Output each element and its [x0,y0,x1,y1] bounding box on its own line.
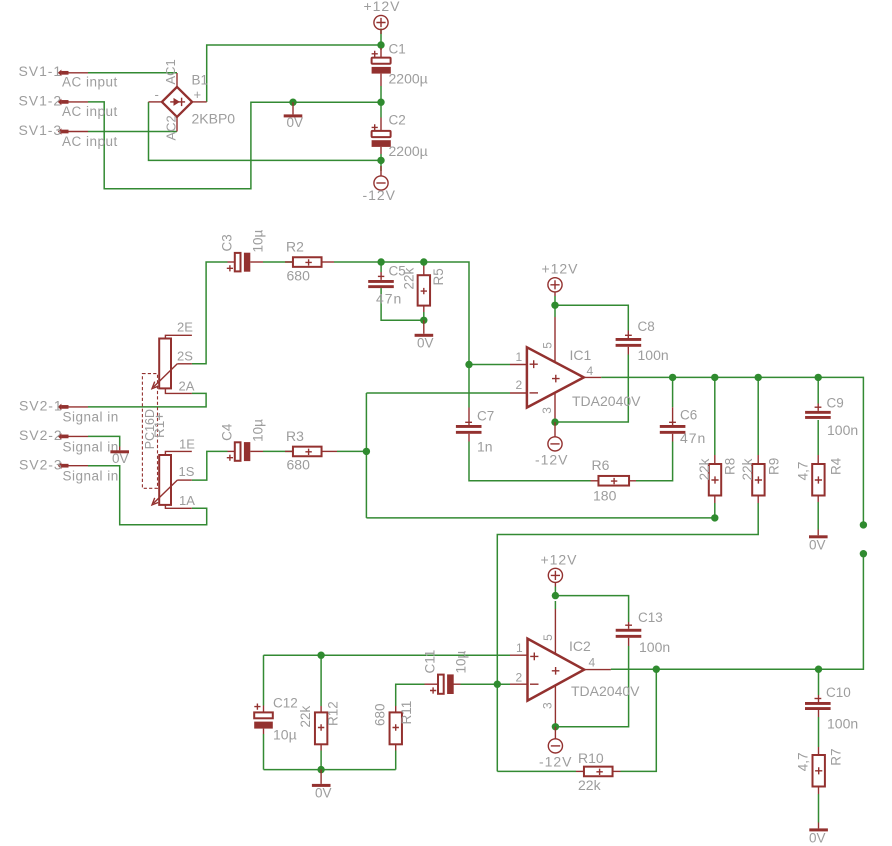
svg-text:1A: 1A [179,493,195,508]
wire feedback bus to R8 bottom [366,517,714,519]
wire R11 top to C11 [396,684,425,706]
supply symbol +12V IC1 [548,278,562,296]
wire net -12V: bridge minus down and right to C2 bottom [149,102,382,160]
svg-text:-12V: -12V [363,187,396,203]
potentiometer R1 section 1 (lower) [152,451,192,508]
svg-text:0V: 0V [809,538,826,553]
svg-text:R1: R1 [152,421,167,438]
junction node C10/rail [815,666,822,673]
svg-text:C1: C1 [389,42,406,57]
wire net 0V: SV1-2 via bottom loop to C1/C2 midpoint [88,102,381,189]
wire R4 bottom to ground [817,502,819,530]
svg-text:-: - [155,87,159,102]
junction node R12 bottom [317,766,324,773]
junction node IC2 pin3 [552,723,559,730]
junction node R12 top / pin1 [317,652,324,659]
svg-text:0V: 0V [287,115,304,130]
supply symbol -12V IC1 [548,422,562,451]
wire R11 bottom [395,751,397,770]
svg-text:+: + [194,87,202,102]
wire net pin1 IC1 [469,364,510,366]
wire net AC1: SV1-1 to bridge [88,72,177,74]
svg-text:Signal in: Signal in [63,469,119,484]
wire C5 branch [380,262,382,272]
svg-text:22k: 22k [740,458,755,480]
svg-text:22k: 22k [697,458,712,480]
svg-text:+12V: +12V [542,261,579,277]
wire C12 branch [263,655,265,705]
wire C4 to R3 [263,450,293,452]
capacitor C4 [227,442,263,461]
wire net SV2-3 down to 1A loop [88,466,207,525]
svg-text:3: 3 [541,702,555,709]
connector pin SV2-2 [58,433,88,440]
wire IC1 +12V to pin5 and C8 [554,296,556,317]
svg-text:2: 2 [516,378,523,392]
svg-text:2KBP0: 2KBP0 [192,111,236,127]
svg-text:AC2: AC2 [164,115,179,140]
svg-text:TDA2040V: TDA2040V [572,393,641,409]
svg-text:47n: 47n [680,430,706,446]
svg-text:C11: C11 [423,650,438,674]
wire R9 top [757,377,759,455]
supply symbol +12V IC2 [548,568,562,595]
svg-text:C12: C12 [273,696,298,711]
connector pin SV2-1 [58,404,88,411]
junction node R5 bottom [420,317,427,324]
svg-text:C13: C13 [638,610,663,625]
capacitor C6 [660,407,686,441]
svg-text:C4: C4 [220,423,235,441]
svg-text:TDA2040V: TDA2040V [571,683,640,699]
resistor R11 [390,706,402,751]
svg-text:2200µ: 2200µ [389,71,428,87]
svg-text:R9: R9 [766,458,781,475]
svg-text:R5: R5 [431,268,446,285]
capacitor C10 [805,695,831,717]
wire C10 column [818,669,820,695]
svg-text:C2: C2 [389,113,406,128]
svg-text:R11: R11 [399,701,414,725]
ground symbol 0V (R4) [809,530,828,539]
wire C8 bottom to pin3 [555,355,628,423]
wire C13 bottom to pin3 [555,646,628,727]
svg-text:2E: 2E [177,320,193,335]
wire net pot1 wiper to C4 [192,451,228,480]
svg-text:B1: B1 [192,73,209,88]
capacitor C3 [227,253,263,272]
wire R10 feedback [497,770,576,772]
svg-text:AC input: AC input [62,75,118,90]
svg-text:SV1-2: SV1-2 [19,93,63,109]
svg-text:C8: C8 [638,319,655,334]
wire R8 top [714,377,716,455]
capacitor C8 [616,331,642,355]
wire net pot2 wiper to C3 [192,262,228,364]
wire R5 branch [423,262,425,265]
connector pin SV1-3 [58,128,88,135]
svg-text:680: 680 [287,268,311,284]
resistor R7 [813,747,825,794]
resistor R2 [285,257,334,267]
svg-text:3: 3 [540,407,554,414]
svg-text:R3: R3 [286,428,304,444]
wire pin2 column down to feedback bus [365,393,367,518]
svg-text:C9: C9 [827,396,844,411]
svg-text:C6: C6 [680,408,697,423]
wire net AC2: SV1-3 to bridge [88,131,177,133]
resistor R12 [315,706,327,751]
wire net SV2-1 to pot2 bottom 2A [88,393,206,407]
svg-text:R12: R12 [326,701,341,726]
svg-text:22k: 22k [298,705,313,727]
wire C6 top to output rail [672,377,674,407]
junction node C1/C2 midpoint [377,99,384,106]
wire net pin1 IC2 [264,654,511,656]
resistor R4 [812,455,824,502]
svg-text:R2: R2 [286,239,304,255]
svg-text:C3: C3 [220,234,235,251]
capacitor C12 [254,704,273,735]
svg-text:AC input: AC input [62,134,118,149]
wire net OUT2: right rail down to IC2 output [611,554,864,670]
svg-text:0V: 0V [315,786,332,801]
svg-text:2200µ: 2200µ [389,143,428,159]
svg-text:100n: 100n [639,639,670,655]
svg-text:1S: 1S [179,464,195,479]
connector pin SV1-1 [58,70,88,77]
junction node R10/output [653,666,660,673]
connector pin SV1-2 [58,99,88,106]
svg-text:4,7: 4,7 [796,752,811,771]
svg-text:C7: C7 [477,409,494,424]
svg-text:SV1-3: SV1-3 [19,122,63,138]
supply symbol +12V top [374,15,388,34]
svg-text:1n: 1n [477,439,493,455]
ground symbol 0V (R7) [809,823,828,832]
svg-text:0V: 0V [417,336,434,351]
wire C9 bottom to R4 [817,420,819,455]
ground symbol 0V (bridge midpoint) [284,102,303,117]
svg-text:0V: 0V [112,451,129,466]
supply symbol -12V top section [374,166,388,190]
capacitor C11 [425,674,461,694]
resistor R5 [418,265,430,312]
ground symbol 0V (R12) [312,770,331,787]
svg-text:2A: 2A [179,379,195,394]
capacitor C5 [368,272,394,288]
capacitor C2 [372,118,391,155]
svg-text:10µ: 10µ [251,419,266,442]
svg-text:100n: 100n [638,347,669,363]
svg-text:SV2-3: SV2-3 [19,457,63,473]
svg-text:2S: 2S [177,349,193,364]
svg-text:SV2-2: SV2-2 [19,427,63,443]
svg-text:10µ: 10µ [454,650,469,673]
svg-text:5: 5 [541,342,555,349]
connector pin SV2-3 [58,462,88,469]
ground symbol 0V (R5/C5) [415,320,434,337]
svg-text:180: 180 [593,488,617,504]
svg-text:4,7: 4,7 [795,462,810,481]
op-amp IC1 [510,317,601,422]
wire C7 column [468,365,470,408]
svg-text:10µ: 10µ [251,229,266,252]
svg-text:R7: R7 [828,749,843,766]
junction node IC2 pin5 [552,592,559,599]
svg-text:4: 4 [587,364,594,378]
junction node IC1 pin3 [551,418,558,425]
junction node C5 top [377,258,384,265]
capacitor C1 [372,48,391,86]
svg-text:Signal in: Signal in [63,440,119,455]
svg-text:1E: 1E [179,437,195,452]
wire net OUT1: output rail [601,377,863,525]
wire R12 top [320,655,322,706]
svg-text:5: 5 [541,634,555,641]
svg-text:R8: R8 [722,458,737,475]
junction node R9/rail [755,374,762,381]
wire net pin2 IC1 [366,392,510,394]
junction node C6/rail [669,374,676,381]
svg-text:22k: 22k [578,777,602,793]
svg-text:-12V: -12V [539,754,572,770]
wire ground bus C12/R12/R11 [264,769,396,771]
svg-text:IC1: IC1 [570,347,592,363]
supply symbol -12V IC2 [548,727,562,753]
svg-text:SV2-1: SV2-1 [19,398,63,414]
svg-text:100n: 100n [827,716,858,732]
wire net SV2-2 to ground [88,436,120,446]
svg-text:AC1: AC1 [163,59,178,84]
svg-text:680: 680 [287,457,311,473]
wire R2 output to IC1 pin1 column [334,262,469,365]
svg-text:2: 2 [516,671,523,685]
wire R7 bottom [818,794,820,823]
ground symbol 0V (SV2-2) [110,447,129,454]
wire R3 to pin2 column [337,450,366,452]
svg-text:10µ: 10µ [273,727,297,743]
resistor R10 [576,767,621,777]
capacitor C13 [616,622,642,646]
wire IC2 +12V to pin5 and C13 [554,601,556,609]
wire C3 to R2 [263,261,293,263]
svg-text:R6: R6 [592,457,610,473]
resistor R9 [752,455,764,503]
junction node R8/rail [711,374,718,381]
wire +12V rail vertical through C1 [380,29,382,51]
svg-text:1: 1 [516,641,523,655]
svg-text:-12V: -12V [535,452,568,468]
mechanical link dashed box R1 [142,374,157,489]
junction node R3/pin2 [363,448,370,455]
junction node C2 bottom [377,157,384,164]
svg-text:100n: 100n [827,422,858,438]
capacitor C9 [805,404,831,419]
svg-text:+12V: +12V [364,0,401,14]
wire R9 bottom to IC2 input column [497,503,758,771]
junction node R8 bottom [711,514,718,521]
svg-text:+12V: +12V [541,552,578,568]
svg-text:Signal in: Signal in [63,410,119,425]
svg-text:IC2: IC2 [569,638,591,654]
wire net +12V: bridge plus up and right to C1 top [207,45,381,102]
capacitor C7 [456,408,482,434]
svg-text:AC input: AC input [62,104,118,119]
junction node pin1/C7 [465,361,472,368]
svg-text:SV1-1: SV1-1 [19,63,63,79]
svg-text:0V: 0V [809,831,826,846]
wire R6 right to C6 bottom [636,442,673,481]
svg-text:4: 4 [589,656,596,670]
potentiometer R1 section 2 (upper) [152,335,192,393]
bridge rectifier B1 [149,73,207,132]
origin cross R1 [156,413,163,420]
svg-text:680: 680 [373,703,388,726]
svg-text:R10: R10 [578,750,604,766]
resistor R6 [591,476,637,486]
junction node pin2 IC2 [494,681,501,688]
junction node C9/rail [815,374,822,381]
op-amp IC2 [510,609,611,727]
junction node R5 top [420,258,427,265]
svg-text:C10: C10 [826,685,851,700]
junction node IC1 pin5 [551,302,558,309]
junction node 0V tap [289,99,296,106]
node OUT1 end [860,521,867,528]
svg-text:22k: 22k [402,267,417,289]
wire C11 to pin2 [461,683,511,685]
svg-text:R4: R4 [828,457,843,475]
resistor R3 [285,447,337,457]
wire C9 top [817,377,819,403]
resistor R8 [709,455,721,503]
svg-text:1: 1 [516,350,523,364]
junction node C1 top [377,41,384,48]
node OUT2 end [860,550,867,557]
svg-text:47n: 47n [376,291,402,307]
